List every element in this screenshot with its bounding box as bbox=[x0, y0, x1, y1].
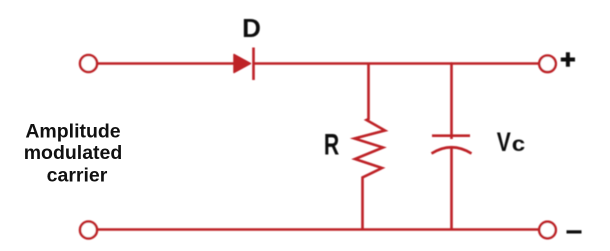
svg-text:Amplitude: Amplitude bbox=[25, 120, 120, 142]
resistor R (zigzag) bbox=[355, 64, 386, 229]
svg-text:D: D bbox=[242, 13, 261, 43]
terminal TP4 (bottom-right output minus) bbox=[539, 222, 556, 239]
plus sign bbox=[561, 52, 575, 66]
terminal TP1 (top-left input) bbox=[80, 55, 97, 72]
wire: node B to output plus terminal bbox=[451, 62, 539, 65]
capacitor C: top lead bbox=[450, 64, 453, 140]
svg-text:R: R bbox=[324, 129, 340, 161]
text: Amplitude modulated carrier bbox=[24, 120, 123, 186]
bottom wire (ground rail) bbox=[97, 228, 539, 231]
capacitor C: top plate bbox=[432, 134, 470, 137]
wire: input terminal to diode anode bbox=[97, 62, 234, 65]
minus sign bbox=[567, 230, 582, 233]
svg-text:carrier: carrier bbox=[47, 164, 108, 186]
terminal TP3 (bottom-left input return) bbox=[80, 222, 97, 239]
terminal TP2 (top-right output plus) bbox=[539, 56, 556, 73]
svg-text:V: V bbox=[497, 128, 511, 158]
svg-text:c: c bbox=[512, 132, 525, 155]
diode D bbox=[234, 48, 254, 81]
label Vc bbox=[497, 128, 525, 158]
wire: diode cathode to top node A bbox=[254, 62, 453, 65]
capacitor C: bottom curved plate bbox=[432, 147, 472, 153]
capacitor C: bottom lead bbox=[450, 146, 453, 230]
svg-text:modulated: modulated bbox=[24, 142, 123, 164]
